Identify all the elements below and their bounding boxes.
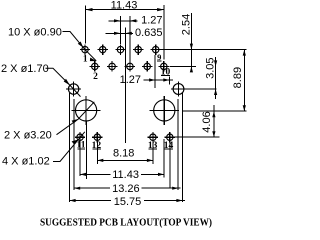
- wire pin5 extension line: [120, 16, 122, 44]
- wire dimension 13.26 bottom: [74, 187, 110, 189]
- svg-text:2 X ø1.70: 2 X ø1.70: [1, 63, 49, 75]
- wire bottom row right extension: [174, 136, 220, 138]
- wire 13.26 left extension: [73, 99, 75, 190]
- wire pin9 column extension: [154, 55, 156, 88]
- svg-text:3.05: 3.05: [205, 57, 217, 78]
- hole left 3.20mm: [72, 96, 101, 125]
- svg-text:4.06: 4.06: [201, 111, 213, 132]
- wire hole12 column extension: [96, 143, 98, 164]
- wire pin1 extension line: [85, 6, 87, 44]
- wire dimension 0.635 top: [106, 32, 134, 34]
- wire 15.75 left extension: [69, 93, 71, 202]
- leader 4x1.02: [53, 132, 85, 162]
- hole right 1.70mm: [171, 82, 186, 97]
- wire dimension 11.43 top line: [86, 9, 165, 11]
- wire dimension 2.54: [190, 13, 192, 72]
- wire dimension 8.18: [97, 159, 153, 161]
- wire row1 right extension: [161, 49, 247, 51]
- wire pin10 extension line: [163, 5, 165, 60]
- wire dimension 15.75 bottom: [70, 200, 111, 202]
- wire phi1.70 right extension: [186, 88, 217, 90]
- hole pin 9 (0.90mm): [151, 44, 161, 54]
- svg-text:1.27: 1.27: [120, 74, 141, 86]
- wire big-hole-left centerline extension: [85, 121, 87, 179]
- leader 10x0.90: [63, 32, 97, 61]
- wire centerline: [124, 28, 126, 144]
- svg-text:0.635: 0.635: [135, 27, 163, 39]
- wire hole11 column extension: [79, 143, 81, 176]
- svg-text:4 X ø1.02: 4 X ø1.02: [2, 156, 50, 168]
- wire dimension 3.05: [215, 57, 217, 99]
- svg-text:11.43: 11.43: [112, 169, 139, 181]
- leader 2x1.70: [46, 68, 70, 85]
- hole pin 1 (0.90mm): [80, 44, 90, 54]
- svg-text:15.75: 15.75: [114, 196, 142, 208]
- hole pin 10 (0.90mm): [159, 61, 169, 71]
- svg-text:8.18: 8.18: [113, 147, 134, 159]
- svg-text:2 X ø3.20: 2 X ø3.20: [4, 130, 52, 142]
- hole pin 13 (1.02mm): [148, 132, 158, 142]
- wire row2 right extension: [169, 65, 196, 67]
- hole pin 8 (0.90mm): [142, 61, 152, 71]
- leader 2x3.20: [57, 102, 95, 135]
- svg-text:1: 1: [83, 54, 88, 64]
- hole pin 4 (0.90mm): [107, 61, 117, 71]
- wire dimension 4.06: [213, 105, 215, 137]
- wire tick at 169.3: [168, 76, 170, 84]
- svg-text:9: 9: [157, 52, 161, 62]
- hole pin 2 (0.90mm): [90, 61, 100, 71]
- wire dimension 11.43 bottom: [80, 173, 110, 175]
- hole pin 6 (0.90mm): [125, 61, 135, 71]
- svg-text:13.26: 13.26: [112, 183, 140, 195]
- wire pin10 column lower extension: [163, 139, 165, 178]
- svg-text:2: 2: [93, 72, 98, 82]
- wire 13.26 right extension: [177, 99, 179, 190]
- svg-text:1.27: 1.27: [141, 15, 162, 27]
- wire big-hole row right extension: [182, 110, 246, 112]
- wire dimension 1.27 lower: [144, 79, 174, 81]
- svg-text:SUGGESTED PCB LAYOUT(TOP VIEW): SUGGESTED PCB LAYOUT(TOP VIEW): [40, 218, 212, 229]
- svg-text:8.89: 8.89: [232, 67, 244, 88]
- hole right 3.20mm: [150, 96, 179, 125]
- wire hole13 column extension: [152, 143, 154, 164]
- hole pin 3 (0.90mm): [98, 44, 108, 54]
- hole pin 11 (1.02mm): [75, 132, 85, 142]
- wire dimension 8.89: [243, 50, 245, 112]
- hole pin 7 (0.90mm): [133, 44, 143, 54]
- hole pin 12 (1.02mm): [92, 132, 102, 142]
- wire 15.75 right extension: [181, 93, 183, 202]
- holes: [66, 44, 186, 142]
- hole left 1.70mm: [66, 82, 81, 97]
- svg-text:2.54: 2.54: [181, 14, 193, 35]
- hole pin 5 (0.90mm): [115, 44, 125, 54]
- wire hole14 column extension: [169, 143, 171, 189]
- svg-text:11.43: 11.43: [111, 0, 138, 12]
- svg-text:10 X ø0.90: 10 X ø0.90: [8, 27, 62, 39]
- hole pin 14 (1.02mm): [165, 132, 175, 142]
- wire pin6 extension line: [129, 16, 131, 61]
- wire dimension 1.27 top: [109, 20, 138, 22]
